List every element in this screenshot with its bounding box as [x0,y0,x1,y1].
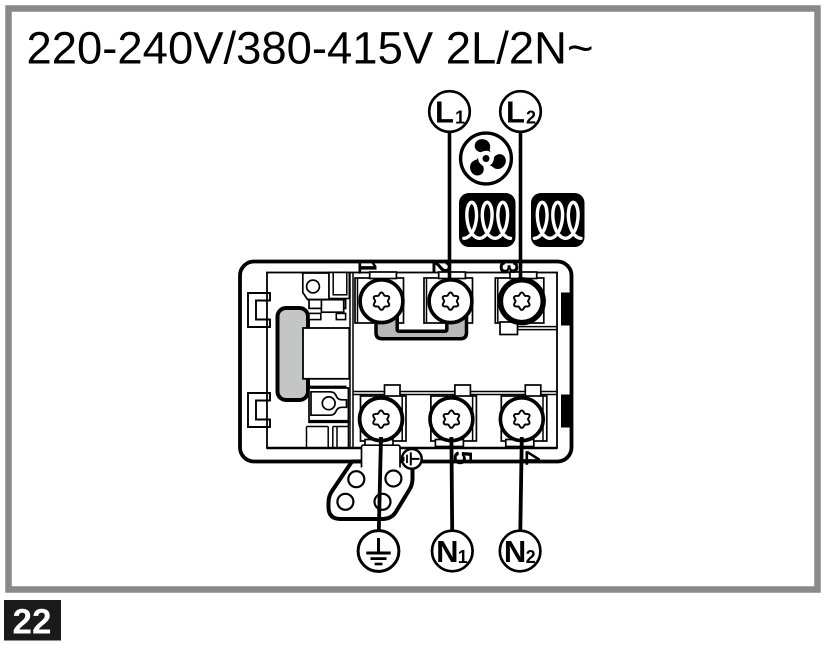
feet [309,313,321,319]
svg-text:2: 2 [526,547,536,567]
svg-text:N: N [504,534,526,569]
heating element icon right [531,193,585,247]
ground terminal screw [360,398,403,441]
vertical divider [349,273,351,449]
bracket hole 4 [375,494,391,510]
step bar [309,300,346,309]
bracket mount tab [362,445,401,467]
bracket hole 3 [337,494,353,510]
bracket hole 2 [385,471,401,487]
middle white box over clamp [303,328,349,379]
terminal 1 housing [355,272,404,323]
fan motor icon [461,133,512,184]
terminal screw 1 [360,280,403,323]
svg-text:L: L [506,95,525,130]
left clip lower [248,393,270,427]
node N2 badge [500,531,541,572]
wire L2 to terminal 3 [519,132,523,296]
svg-text:22: 22 [13,603,52,642]
ground wire [379,437,381,532]
node L2 badge [500,91,541,132]
latch channel [329,273,349,299]
svg-text:1: 1 [458,547,468,567]
wire N2 [520,437,522,531]
svg-text:220-240V/380-415V 2L/2N~: 220-240V/380-415V 2L/2N~ [27,23,594,74]
node N1 badge [432,531,473,572]
cable clamp grey bar [278,308,309,400]
terminal screw 2 [429,280,472,323]
terminal 3 housing [495,272,544,323]
terminal 2 housing [424,272,473,323]
terminal screw 5 [430,398,473,441]
left clip upper [248,293,270,327]
terminal block outer body [240,262,572,462]
lower-left channel lines [307,426,329,428]
bracket hole 1 [348,471,364,487]
page number 22 [4,600,61,642]
node L1 badge [429,91,470,132]
upper-left plate with hole [303,273,329,300]
heating element icon left [459,193,516,247]
earth bracket plate [329,461,413,519]
wire L1 to terminal 2 [448,132,452,296]
wire N1 [449,437,454,531]
terminal 4 housing [501,385,547,447]
lower-left housing with keyhole plate [309,388,348,422]
svg-text:2: 2 [526,108,536,128]
inner body rect [267,273,557,449]
svg-text:3: 3 [494,260,522,274]
terminal 3 lower clamp [500,322,557,335]
ground terminal housing [361,385,407,447]
horizontal divider bottom row [353,391,557,393]
terminal 5 housing [431,385,477,447]
right mounting tab lower [561,395,573,428]
svg-text:1: 1 [455,108,465,128]
earth badge [358,531,399,572]
right mounting tab upper [561,293,573,326]
svg-text:N: N [436,534,458,569]
terminal screw 4 [500,398,543,441]
svg-text:1: 1 [353,260,381,274]
jumper bar between terminal 1 and 2 [376,308,467,339]
svg-text:L: L [435,95,454,130]
ground screw with earth mark [402,449,422,469]
terminal screw 3 [500,280,543,323]
